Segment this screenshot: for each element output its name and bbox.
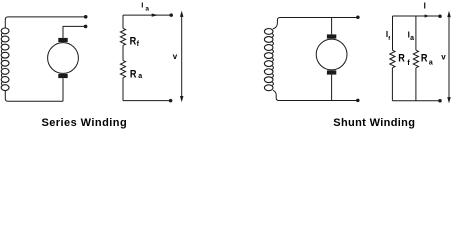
- brush bottom of shunt motor: [327, 70, 336, 74]
- wire: series equivalent branch upper segment: [122, 15, 124, 28]
- svg-text:Shunt Winding: Shunt Winding: [333, 117, 415, 129]
- wire: shunt equivalent field branch upper segment: [392, 16, 394, 50]
- svg-text:f: f: [407, 60, 410, 67]
- node: series equivalent bottom right junction: [169, 99, 173, 103]
- arrow: V line down arrowhead (series): [180, 96, 184, 102]
- wire: shunt coil bottom stem and bottom wire to terminal: [273, 90, 358, 100]
- wire: shunt motor top lead: [331, 18, 333, 35]
- node: shunt bottom supply terminal: [356, 99, 360, 103]
- svg-text:R: R: [130, 36, 137, 48]
- arrow: supply current I direction on top wire: [425, 14, 430, 17]
- resistor Ra armature resistance (series equivalent): [120, 60, 125, 77]
- wire: shunt motor bottom lead: [331, 75, 333, 101]
- node: shunt equivalent top right junction: [438, 14, 442, 18]
- arrow: V line up arrowhead (series): [180, 11, 184, 17]
- brush bottom of series motor: [58, 74, 67, 78]
- svg-text:v: v: [173, 52, 178, 61]
- wire: series motor bottom lead: [62, 78, 64, 101]
- svg-text:Series Winding: Series Winding: [41, 117, 127, 129]
- wire: series top wire from terminal node to field coil: [5, 17, 85, 28]
- svg-text:R: R: [421, 53, 428, 65]
- arrow: armature current Ia direction on top wire: [152, 14, 159, 17]
- motor M2 armature circle (shunt): [316, 39, 347, 70]
- svg-text:R: R: [398, 53, 405, 65]
- svg-text:a: a: [145, 6, 149, 13]
- inductor series field winding coil: [1, 28, 9, 91]
- wire: shunt top wire from terminal past motor junction to field coil: [273, 18, 358, 29]
- inductor shunt field winding coil: [264, 29, 273, 91]
- svg-text:f: f: [388, 36, 390, 42]
- node: series top supply terminal: [84, 15, 88, 19]
- svg-text:I: I: [424, 2, 426, 11]
- svg-text:v: v: [441, 53, 446, 62]
- resistor Ra armature resistance (shunt equivalent): [413, 50, 418, 68]
- svg-text:a: a: [138, 73, 142, 80]
- wire: series equivalent bottom wire: [123, 100, 171, 102]
- svg-text:a: a: [429, 59, 433, 66]
- svg-text:f: f: [137, 41, 140, 48]
- voltage reference line V (series): [181, 17, 183, 97]
- resistor Rf field resistance (shunt equivalent): [390, 50, 395, 68]
- node: series equivalent top right junction: [169, 13, 173, 17]
- wire: series equivalent branch lower segment: [122, 78, 124, 101]
- arrow: V line down arrowhead (shunt): [447, 97, 451, 103]
- wire: series equivalent top wire: [123, 14, 171, 16]
- wire: shunt equivalent armature branch upper segment: [415, 16, 417, 50]
- node: shunt top supply terminal: [356, 15, 360, 19]
- node: shunt equivalent bottom right junction: [438, 99, 442, 103]
- wire: shunt equivalent top wire: [393, 15, 441, 17]
- wire: series coil bottom stem and bottom wire to motor: [5, 90, 63, 101]
- wire: shunt equivalent armature branch lower segment: [415, 68, 417, 101]
- arrow: V line up arrowhead (shunt): [447, 11, 451, 17]
- voltage reference line V (shunt): [448, 17, 450, 98]
- svg-text:R: R: [130, 69, 137, 81]
- svg-text:a: a: [410, 35, 414, 42]
- motor M1 armature circle (series): [48, 43, 79, 74]
- resistor Rf field resistance (series equivalent): [120, 28, 125, 45]
- wire: series motor top lead to terminal: [63, 26, 86, 38]
- brush top of shunt motor: [327, 34, 336, 38]
- svg-text:I: I: [141, 0, 143, 9]
- wire: shunt equivalent field branch lower segment: [391, 68, 393, 101]
- brush top of series motor: [58, 38, 67, 42]
- wire: segment between Rf and Ra: [122, 46, 124, 61]
- wire: shunt equivalent bottom wire: [393, 100, 441, 102]
- node: series motor supply terminal: [84, 25, 88, 29]
